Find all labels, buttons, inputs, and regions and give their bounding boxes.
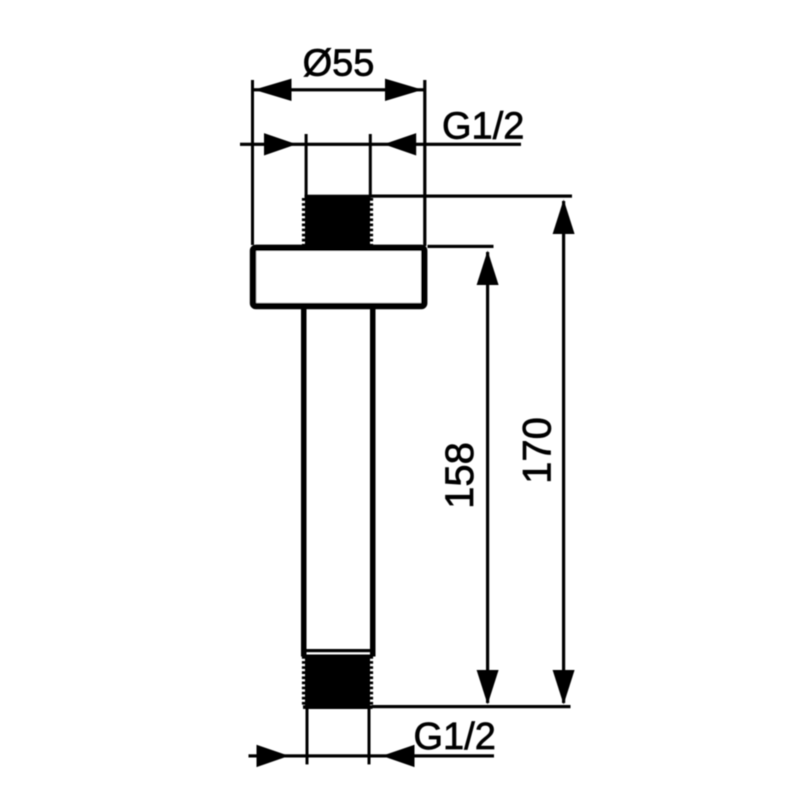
dimension G1/2 top : right tick line	[369, 134, 372, 196]
svg-text:Ø55: Ø55	[303, 43, 375, 85]
dimension G1/2 bottom : right arrowhead	[382, 745, 415, 767]
dimension G1/2 top : left arrowhead	[264, 133, 297, 155]
dimension 170 : bottom extension line (shared with 158)	[372, 705, 571, 708]
dimension G1/2 top : dimension line	[240, 143, 521, 146]
bottom thread G1/2 male (black with serrated edges)	[303, 655, 373, 710]
dimension 170 : top arrowhead	[553, 200, 575, 235]
pipe end left wall	[306, 709, 309, 765]
dimension 158 : shaft	[486, 252, 489, 703]
tube right wall	[370, 307, 376, 657]
dimension Ø55 : left arrowhead	[254, 79, 292, 101]
dimension Ø55 : left extension line	[251, 80, 254, 245]
dimension G1/2 bottom : left arrowhead	[257, 745, 290, 767]
top thread G1/2 male (black with serrated edges)	[304, 195, 372, 249]
dimension 170 : bottom arrowhead	[553, 670, 575, 705]
dimension Ø55 : dimension line	[252, 88, 424, 91]
svg-text:G1/2: G1/2	[442, 106, 524, 148]
dimension 170 : top extension line	[371, 195, 572, 198]
pipe end right wall	[368, 709, 371, 765]
dimension Ø55 : right arrowhead	[385, 79, 423, 101]
tube bottom step line	[305, 649, 371, 652]
dimension 158 : top arrowhead	[477, 251, 499, 286]
svg-text:170: 170	[516, 417, 560, 484]
dimension Ø55 : right extension line	[423, 80, 426, 246]
dimension G1/2 top : left tick line	[305, 134, 308, 196]
dimension G1/2 bottom : dimension line	[249, 754, 495, 757]
svg-text:G1/2: G1/2	[414, 716, 496, 758]
svg-text:158: 158	[438, 442, 482, 509]
tube left wall	[301, 307, 307, 657]
dimension 158 : top extension line	[428, 245, 494, 248]
dimension 170 : shaft	[562, 201, 565, 703]
dimension G1/2 top : right arrowhead	[384, 133, 417, 155]
dimension 158 : bottom arrowhead	[477, 670, 499, 705]
flange / escutcheon (Ø55)	[253, 248, 424, 306]
